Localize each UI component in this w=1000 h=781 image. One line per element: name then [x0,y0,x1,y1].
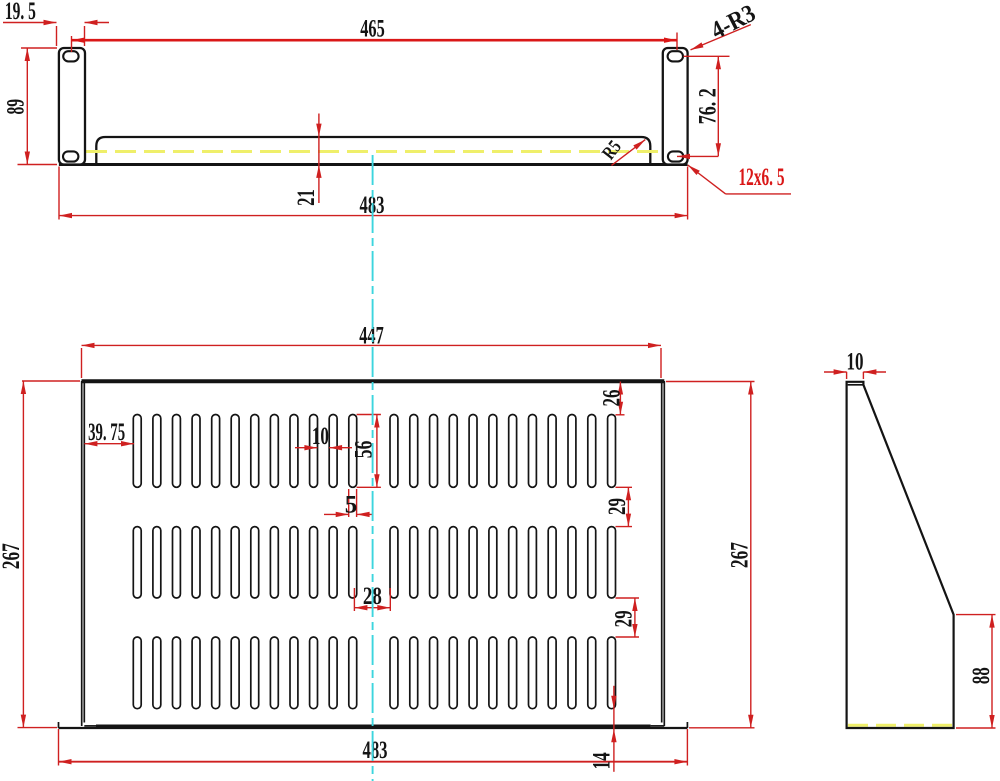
dimension 267 right (face height) [666,382,755,728]
svg-text:88: 88 [968,667,995,684]
dimension 29 (row 2 to row 3 gap) [611,598,639,637]
dimension 28 (center gap) [354,583,390,611]
dimension 21 (front lip height) [293,114,321,206]
front view: left mounting ear [59,48,85,165]
plan view: right side edge (inner) [661,383,663,723]
plan view: left rear tab edge [58,722,60,728]
dimension 483 (overall width, front view) [59,167,688,220]
plan view: left side edge (outer) [81,381,83,726]
svg-text:19. 5: 19. 5 [5,0,36,25]
svg-text:267: 267 [0,543,25,569]
front view: right ear upper slot hole [668,51,683,61]
front view: yellow phantom centerline of shelf body [86,150,663,153]
dimension 447 (face width) [82,322,662,378]
side view: top cap bottom line [848,384,864,386]
svg-text:76. 2: 76. 2 [694,88,721,124]
dimension 10 (side view top thickness) [824,348,886,379]
front view: right ear lower slot hole [668,151,683,161]
svg-text:5: 5 [345,492,358,519]
dimension 19.5 (ear depth) [3,0,109,46]
svg-text:267: 267 [726,542,753,568]
plan view: vent slot row 1 (24 slots) [133,415,615,488]
plan view: bottom lip edge (thick) [96,725,651,728]
svg-text:483: 483 [363,737,388,764]
svg-text:465: 465 [360,16,385,43]
plan view: vent slot row 2 (24 slots) [133,527,615,598]
dimension 267 left (face height) [0,381,80,728]
svg-text:21: 21 [293,189,320,206]
svg-text:89: 89 [2,99,29,115]
side view: yellow phantom line at bottom [848,724,952,727]
dimension 26 (top edge to slot row 1) [599,382,626,415]
dimension 76.2 (hole vertical spacing) [677,56,730,159]
plan view: right side edge (outer) [663,381,665,726]
side view: outline (left edge, top cap, diagonal, right edge, bottom) [847,382,954,728]
leader and label 4-R3 (ear corner radius) [691,0,760,50]
svg-text:10: 10 [312,423,329,450]
svg-text:26: 26 [599,390,626,407]
svg-text:39. 75: 39. 75 [88,419,125,446]
vertical cyan centerline of part [372,155,374,781]
dimension 39.75 (edge to first slot) [84,419,134,446]
dimension 14 (slot row 3 to bottom edge) [589,686,617,772]
plan view: bottom thin edge right segment [651,725,665,727]
dimension 10 (gap between slots) [295,423,352,450]
dimension 88 (side view rear height) [956,615,996,728]
front view: right mounting ear [663,48,688,165]
svg-text:10: 10 [847,348,864,375]
plan view: right rear tab edge [686,722,688,728]
front view: left ear lower slot hole [63,151,78,161]
svg-text:29: 29 [611,610,638,627]
front view: left ear upper slot hole [63,51,78,61]
dimension 5 (slot width) [324,489,373,519]
front view: shelf body (bent front lip, rounded top corners) [96,137,650,165]
svg-text:14: 14 [589,752,616,769]
dimension 483 (overall width, plan view) [59,729,688,766]
plan view: bottom plate edge (483 wide) [59,727,688,729]
leader and label R5 (body corner radius) [598,137,645,166]
svg-text:447: 447 [359,322,384,349]
dimension 465 (mounting hole span) [72,16,678,52]
dimension 29 (row 1 to row 2 gap) [604,487,632,526]
dimension 89 (ear height) [2,48,57,165]
svg-text:12x6. 5: 12x6. 5 [739,164,785,191]
plan view: left side edge (inner) [83,383,85,723]
svg-text:29: 29 [604,498,631,515]
leader and label 12x6.5 (ear slot hole size) [688,164,791,194]
dimension 56 (slot length) [350,415,381,488]
plan view: vent slot row 3 (24 slots) [133,637,615,709]
plan view: face top edge [82,379,665,383]
front view: bottom plate edge (483 wide) [59,163,688,166]
plan view: bottom thin edge left segment [84,725,96,727]
